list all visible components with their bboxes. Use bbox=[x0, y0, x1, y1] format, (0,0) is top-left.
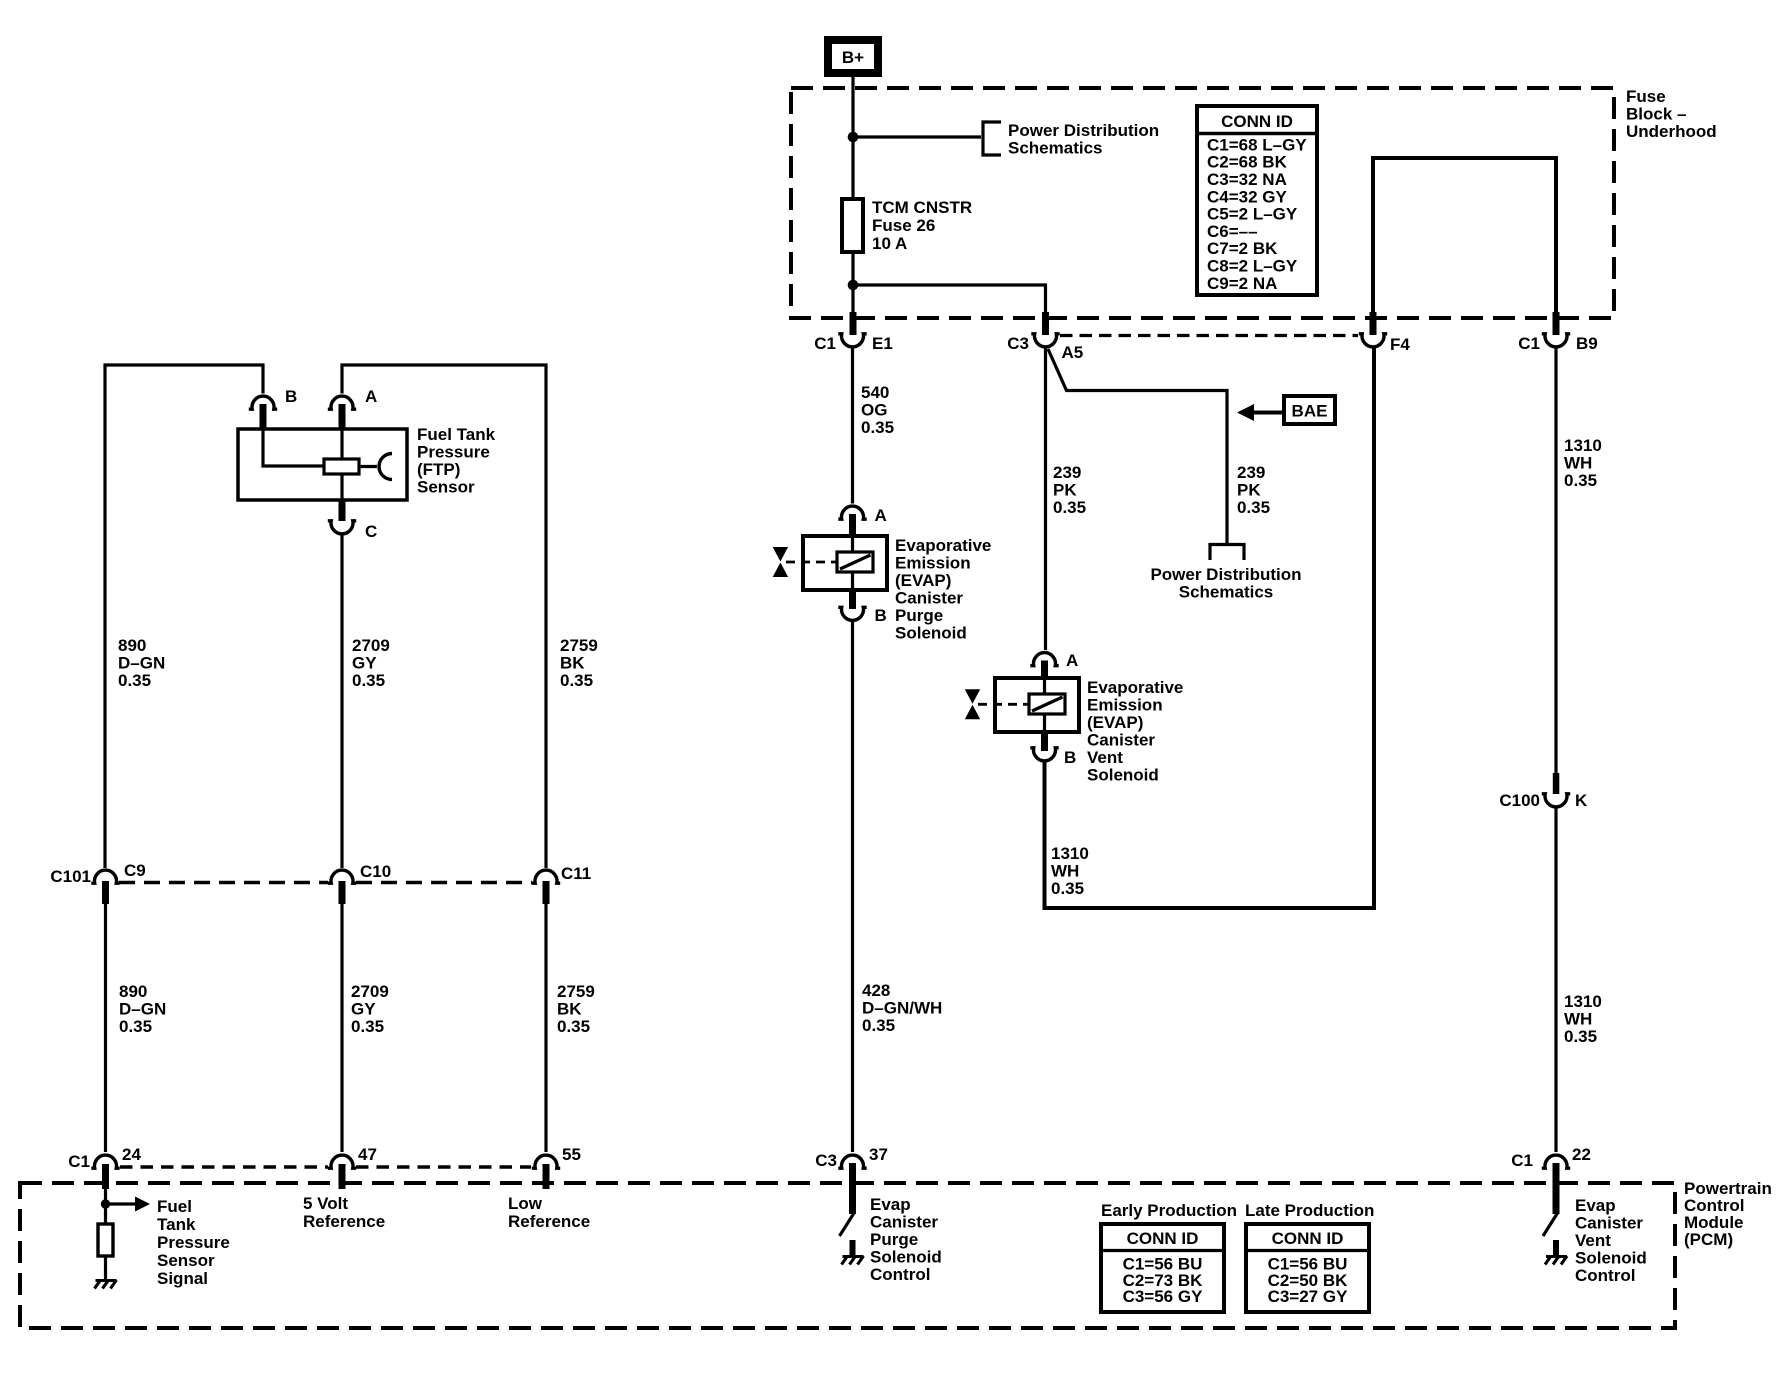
wire 540 OG E1 to purge solenoid A bbox=[851, 348, 854, 504]
svg-text:WH: WH bbox=[1564, 454, 1592, 473]
svg-text:C100: C100 bbox=[1499, 791, 1540, 810]
connector C FTP bbox=[328, 521, 356, 534]
CONN ID table fuse block bbox=[1197, 106, 1317, 295]
wire 239 PK A5 down to vent solenoid A bbox=[1044, 348, 1047, 650]
svg-text:WH: WH bbox=[1564, 1010, 1592, 1029]
svg-text:Pressure: Pressure bbox=[157, 1233, 230, 1252]
wire label 1310 WH 0.35 vent bbox=[1051, 844, 1089, 898]
battery feed B+ box bbox=[828, 40, 878, 73]
PCM dashed box bbox=[20, 1183, 1675, 1328]
svg-text:2709: 2709 bbox=[352, 636, 390, 655]
fuel tank pressure sensor box bbox=[238, 429, 407, 500]
wire resistor to ground bbox=[104, 1256, 107, 1279]
svg-text:Signal: Signal bbox=[157, 1269, 208, 1288]
svg-text:Canister: Canister bbox=[895, 589, 963, 608]
pin stub A vent bbox=[1041, 661, 1048, 679]
wire vent B loop up to F4 bbox=[1045, 348, 1375, 908]
pin 47 stub bbox=[339, 1164, 346, 1189]
off-page bracket lower power distribution bbox=[1210, 545, 1244, 561]
wire branch A5 diagonal to power distribution bbox=[1048, 349, 1227, 544]
wire C100 to PCM pin 22 bbox=[1554, 808, 1557, 1152]
dashed line C101 segment 2 bbox=[356, 881, 532, 884]
dashed pin row segment 1 bbox=[120, 1165, 328, 1168]
svg-text:Early Production: Early Production bbox=[1101, 1201, 1237, 1220]
svg-text:C4=32 GY: C4=32 GY bbox=[1207, 187, 1288, 206]
svg-text:GY: GY bbox=[351, 1000, 376, 1019]
svg-text:BK: BK bbox=[557, 1000, 582, 1019]
svg-text:239: 239 bbox=[1237, 463, 1265, 482]
purge valve bbox=[773, 547, 788, 577]
svg-text:C3=32 NA: C3=32 NA bbox=[1207, 170, 1287, 189]
connector F4 bbox=[1359, 334, 1387, 347]
svg-text:CONN ID: CONN ID bbox=[1127, 1229, 1199, 1248]
wire label 2709 GY 0.35 upper bbox=[352, 636, 390, 690]
BAE box bbox=[1284, 396, 1335, 424]
wire C11 to pin 55 bbox=[544, 903, 547, 1152]
ground purge control bbox=[842, 1256, 864, 1265]
svg-text:Schematics: Schematics bbox=[1179, 583, 1274, 602]
svg-text:2709: 2709 bbox=[351, 982, 389, 1001]
svg-text:C3: C3 bbox=[815, 1151, 837, 1170]
vent coil bbox=[1029, 694, 1065, 714]
wire label 1310 WH 0.35 below B9 bbox=[1564, 436, 1602, 490]
fuse block label bbox=[1626, 87, 1717, 141]
svg-text:10 A: 10 A bbox=[872, 234, 907, 253]
wire label 2759 BK 0.35 lower bbox=[557, 982, 595, 1036]
svg-text:(EVAP): (EVAP) bbox=[895, 571, 951, 590]
connector C3 A5 bbox=[1031, 334, 1059, 347]
wire label 2759 BK 0.35 upper bbox=[560, 636, 598, 690]
svg-text:C1: C1 bbox=[1511, 1151, 1533, 1170]
svg-text:K: K bbox=[1575, 791, 1588, 810]
purge solenoid label bbox=[895, 536, 991, 643]
connector C101 C11 bbox=[532, 870, 560, 883]
svg-text:Evaporative: Evaporative bbox=[895, 536, 991, 555]
FTP signal label bbox=[157, 1197, 230, 1288]
late production CONN ID table bbox=[1246, 1224, 1369, 1312]
svg-text:540: 540 bbox=[861, 383, 889, 402]
wire label 2709 GY 0.35 lower bbox=[351, 982, 389, 1036]
purge solenoid box bbox=[803, 536, 887, 590]
svg-text:Pressure: Pressure bbox=[417, 443, 490, 462]
svg-text:CONN ID: CONN ID bbox=[1221, 112, 1293, 131]
connector pin 47 bbox=[328, 1155, 356, 1168]
driver switch blade pin 22 bbox=[1543, 1213, 1558, 1236]
svg-text:890: 890 bbox=[119, 982, 147, 1001]
svg-text:0.35: 0.35 bbox=[1053, 498, 1086, 517]
FTP signal arrow bbox=[106, 1197, 151, 1212]
svg-text:Tank: Tank bbox=[157, 1215, 196, 1234]
purge control label bbox=[870, 1195, 942, 1284]
svg-text:F4: F4 bbox=[1390, 335, 1410, 354]
svg-text:0.35: 0.35 bbox=[1051, 879, 1084, 898]
connector B vent bbox=[1030, 748, 1058, 761]
svg-text:TCM CNSTR: TCM CNSTR bbox=[872, 198, 972, 217]
FTP sensor label bbox=[417, 425, 496, 497]
connector C101 C10 bbox=[328, 870, 356, 883]
svg-text:Underhood: Underhood bbox=[1626, 122, 1717, 141]
wire label 1310 WH 0.35 lower right bbox=[1564, 992, 1602, 1046]
wire to power distribution tap bbox=[853, 135, 981, 138]
svg-text:C101: C101 bbox=[50, 867, 91, 886]
pin E1 stub bbox=[850, 312, 857, 335]
wire purge B down to PCM pin 37 bbox=[851, 622, 854, 1152]
svg-text:Evaporative: Evaporative bbox=[1087, 678, 1183, 697]
svg-text:A: A bbox=[1066, 651, 1078, 670]
FTP resistor bbox=[324, 459, 359, 474]
svg-text:0.35: 0.35 bbox=[1564, 471, 1597, 490]
FTP internal A lead through resistor bbox=[340, 429, 343, 500]
svg-text:22: 22 bbox=[1572, 1145, 1591, 1164]
connector pin 24 bbox=[91, 1155, 119, 1168]
svg-text:Control: Control bbox=[1575, 1266, 1635, 1285]
svg-text:Block –: Block – bbox=[1626, 105, 1686, 124]
svg-text:GY: GY bbox=[352, 654, 377, 673]
svg-text:C6=––: C6=–– bbox=[1207, 222, 1258, 241]
svg-text:C1: C1 bbox=[68, 1152, 90, 1171]
pin F4 stub bbox=[1370, 312, 1377, 335]
svg-text:(EVAP): (EVAP) bbox=[1087, 713, 1143, 732]
svg-text:B9: B9 bbox=[1576, 334, 1598, 353]
svg-text:55: 55 bbox=[562, 1145, 581, 1164]
PCM internal resistor bbox=[98, 1224, 113, 1256]
svg-text:Reference: Reference bbox=[303, 1212, 385, 1231]
svg-text:0.35: 0.35 bbox=[1564, 1027, 1597, 1046]
BAE arrow bbox=[1237, 404, 1284, 421]
fuse label bbox=[872, 198, 972, 253]
svg-text:A: A bbox=[875, 506, 887, 525]
power distribution schematics label bbox=[1008, 121, 1159, 158]
ground vent control bbox=[1545, 1256, 1567, 1265]
svg-text:0.35: 0.35 bbox=[862, 1016, 895, 1035]
pin A5 stub bbox=[1042, 312, 1049, 335]
vent coil vertical lead bbox=[1043, 678, 1046, 732]
svg-text:C3=56 GY: C3=56 GY bbox=[1123, 1287, 1204, 1306]
svg-text:Solenoid: Solenoid bbox=[870, 1248, 942, 1267]
pin stub B purge bbox=[849, 590, 856, 609]
connector C100 K bbox=[1542, 794, 1570, 807]
svg-text:0.35: 0.35 bbox=[557, 1017, 590, 1036]
svg-text:24: 24 bbox=[122, 1145, 141, 1164]
early production CONN ID table bbox=[1101, 1224, 1224, 1312]
svg-text:C9=2 NA: C9=2 NA bbox=[1207, 274, 1277, 293]
connector A FTP bbox=[328, 396, 356, 409]
driver switch blade pin 37 bbox=[840, 1213, 855, 1236]
svg-text:A5: A5 bbox=[1062, 343, 1084, 362]
svg-text:Power Distribution: Power Distribution bbox=[1008, 121, 1159, 140]
pin 24 stub bbox=[102, 1164, 109, 1189]
pin stub B FTP bbox=[260, 404, 267, 430]
connector pin 55 bbox=[532, 1155, 560, 1168]
svg-text:0.35: 0.35 bbox=[861, 418, 894, 437]
svg-text:(FTP): (FTP) bbox=[417, 460, 460, 479]
wire fuse to E1 bbox=[851, 252, 854, 315]
connector B purge bbox=[838, 607, 866, 620]
low reference label bbox=[508, 1194, 590, 1231]
svg-text:0.35: 0.35 bbox=[352, 671, 385, 690]
pin 55 stub bbox=[543, 1164, 550, 1189]
svg-text:Purge: Purge bbox=[870, 1230, 918, 1249]
svg-text:1310: 1310 bbox=[1564, 436, 1602, 455]
junction at B+ feed bbox=[848, 132, 859, 143]
svg-text:0.35: 0.35 bbox=[1237, 498, 1270, 517]
svg-text:C5=2 L–GY: C5=2 L–GY bbox=[1207, 205, 1298, 224]
wire top right loop FTP A to 2759 bbox=[342, 365, 546, 868]
FTP signal wire inside PCM bbox=[104, 1189, 107, 1224]
wire label 428 D-GN/WH 0.35 bbox=[862, 981, 942, 1035]
svg-text:1310: 1310 bbox=[1564, 992, 1602, 1011]
5 volt reference label bbox=[303, 1194, 385, 1231]
svg-text:C1: C1 bbox=[814, 334, 836, 353]
connector A vent bbox=[1030, 653, 1058, 666]
svg-text:C11: C11 bbox=[561, 864, 591, 883]
svg-text:890: 890 bbox=[118, 636, 146, 655]
vent solenoid label bbox=[1087, 678, 1183, 785]
FTP internal B lead bbox=[263, 429, 324, 466]
svg-text:C7=2 BK: C7=2 BK bbox=[1207, 239, 1278, 258]
svg-text:Fuel: Fuel bbox=[157, 1197, 192, 1216]
connector pin 22 bbox=[1542, 1155, 1570, 1168]
pin B9 stub bbox=[1553, 312, 1560, 335]
svg-text:Reference: Reference bbox=[508, 1212, 590, 1231]
fuse TCM CNSTR Fuse 26 10A bbox=[842, 199, 863, 252]
svg-text:C9: C9 bbox=[124, 861, 146, 880]
svg-text:0.35: 0.35 bbox=[351, 1017, 384, 1036]
svg-text:Fuel Tank: Fuel Tank bbox=[417, 425, 496, 444]
connector C101 C9 bbox=[91, 870, 119, 883]
pin stub C9 bbox=[102, 881, 109, 904]
svg-text:Canister: Canister bbox=[1087, 731, 1155, 750]
svg-text:Solenoid: Solenoid bbox=[1575, 1249, 1647, 1268]
connector B FTP bbox=[249, 396, 277, 409]
svg-text:C8=2 L–GY: C8=2 L–GY bbox=[1207, 257, 1298, 276]
PCM label bbox=[1684, 1179, 1772, 1249]
wire label 239 PK 0.35 left bbox=[1053, 463, 1086, 517]
svg-text:C: C bbox=[365, 522, 377, 541]
svg-text:239: 239 bbox=[1053, 463, 1081, 482]
svg-text:OG: OG bbox=[861, 401, 887, 420]
svg-text:Low: Low bbox=[508, 1194, 543, 1213]
svg-text:Evap: Evap bbox=[1575, 1196, 1616, 1215]
svg-text:Control: Control bbox=[870, 1265, 930, 1284]
vent valve dashed link bbox=[978, 703, 1029, 706]
pin stub B vent bbox=[1041, 732, 1048, 751]
pin 22 stub bbox=[1553, 1163, 1560, 1214]
svg-text:E1: E1 bbox=[872, 334, 893, 353]
purge valve dashed link bbox=[786, 561, 837, 564]
svg-text:C3: C3 bbox=[1007, 334, 1029, 353]
wire label 890 D-GN 0.35 lower bbox=[119, 982, 166, 1036]
pin 37 stub bbox=[849, 1163, 856, 1214]
svg-text:0.35: 0.35 bbox=[118, 671, 151, 690]
vent control label bbox=[1575, 1196, 1647, 1285]
wire C down to C10 bbox=[340, 535, 343, 868]
connector C1 B9 bbox=[1542, 334, 1570, 347]
wire label 890 D-GN 0.35 upper bbox=[118, 636, 165, 690]
vent solenoid box bbox=[995, 678, 1079, 732]
purge coil vertical lead bbox=[851, 536, 854, 590]
svg-text:Fuse 26: Fuse 26 bbox=[872, 216, 935, 235]
junction below fuse bbox=[848, 280, 859, 291]
svg-text:CONN ID: CONN ID bbox=[1272, 1229, 1344, 1248]
svg-text:Canister: Canister bbox=[870, 1213, 938, 1232]
svg-text:B: B bbox=[1064, 748, 1076, 767]
svg-text:D–GN: D–GN bbox=[118, 654, 165, 673]
svg-text:428: 428 bbox=[862, 981, 890, 1000]
svg-text:B+: B+ bbox=[842, 48, 864, 67]
fuse block dashed box bbox=[791, 88, 1614, 318]
wire B+ down into fuse block bbox=[851, 77, 854, 199]
purge coil bbox=[837, 552, 873, 572]
ground stub pin 22 bbox=[1553, 1240, 1559, 1255]
dashed connector group line A5 to F4 bbox=[1060, 334, 1358, 337]
connector pin 37 bbox=[838, 1155, 866, 1168]
svg-text:2759: 2759 bbox=[560, 636, 598, 655]
svg-text:BK: BK bbox=[560, 654, 585, 673]
svg-text:PK: PK bbox=[1053, 481, 1077, 500]
wire top left loop to FTP B bbox=[105, 365, 263, 868]
svg-text:C10: C10 bbox=[360, 862, 391, 881]
svg-text:C1: C1 bbox=[1518, 334, 1540, 353]
svg-text:Late Production: Late Production bbox=[1245, 1201, 1374, 1220]
svg-text:37: 37 bbox=[869, 1145, 888, 1164]
svg-text:Vent: Vent bbox=[1087, 748, 1123, 767]
svg-text:0.35: 0.35 bbox=[560, 671, 593, 690]
svg-text:A: A bbox=[365, 387, 377, 406]
pin stub C FTP bbox=[339, 500, 346, 521]
off-page bracket power distribution bbox=[983, 122, 1001, 155]
svg-text:D–GN: D–GN bbox=[119, 1000, 166, 1019]
svg-text:C3=27 GY: C3=27 GY bbox=[1268, 1287, 1349, 1306]
svg-text:Schematics: Schematics bbox=[1008, 139, 1103, 158]
svg-text:Emission: Emission bbox=[895, 554, 971, 573]
svg-text:Sensor: Sensor bbox=[417, 478, 475, 497]
svg-text:2759: 2759 bbox=[557, 982, 595, 1001]
svg-text:Canister: Canister bbox=[1575, 1214, 1643, 1233]
wire C9 to pin 24 bbox=[104, 903, 107, 1152]
EVAP canister purge solenoid bbox=[773, 506, 887, 625]
svg-text:Purge: Purge bbox=[895, 606, 943, 625]
svg-text:(PCM): (PCM) bbox=[1684, 1230, 1733, 1249]
dashed pin row segment 2 bbox=[356, 1165, 531, 1168]
svg-text:D–GN/WH: D–GN/WH bbox=[862, 999, 942, 1018]
FTP wiper arc bbox=[379, 454, 392, 480]
svg-text:1310: 1310 bbox=[1051, 844, 1089, 863]
svg-text:Solenoid: Solenoid bbox=[1087, 766, 1159, 785]
svg-text:BAE: BAE bbox=[1292, 402, 1328, 421]
ground FTP signal bbox=[95, 1280, 117, 1289]
pin stub C10 bbox=[339, 881, 346, 904]
svg-text:Power Distribution: Power Distribution bbox=[1150, 565, 1301, 584]
svg-text:B: B bbox=[285, 387, 297, 406]
svg-text:47: 47 bbox=[358, 1145, 377, 1164]
internal fuse block loop F4 to B9 bbox=[1373, 158, 1556, 315]
connector A purge bbox=[838, 506, 866, 519]
pin stub C11 bbox=[543, 881, 550, 904]
svg-text:Emission: Emission bbox=[1087, 696, 1163, 715]
dashed line C101 segment 1 bbox=[119, 881, 328, 884]
svg-text:WH: WH bbox=[1051, 862, 1079, 881]
lower power distribution schematics label bbox=[1150, 565, 1301, 602]
connector C1 E1 bbox=[838, 334, 866, 347]
wire B9 down to C100 bbox=[1554, 348, 1557, 774]
svg-text:Fuse: Fuse bbox=[1626, 87, 1666, 106]
EVAP canister vent solenoid bbox=[965, 651, 1079, 767]
vent valve bbox=[965, 689, 980, 719]
svg-text:Sensor: Sensor bbox=[157, 1251, 215, 1270]
wire label 540 OG 0.35 bbox=[861, 383, 894, 437]
pin stub A purge bbox=[849, 514, 856, 536]
svg-text:0.35: 0.35 bbox=[119, 1017, 152, 1036]
svg-text:5 Volt: 5 Volt bbox=[303, 1194, 348, 1213]
wire branch to A5 bbox=[853, 285, 1046, 315]
svg-text:C1=68 L–GY: C1=68 L–GY bbox=[1207, 135, 1307, 154]
svg-text:PK: PK bbox=[1237, 481, 1261, 500]
ground stub pin 37 bbox=[850, 1240, 856, 1255]
wire label 239 PK 0.35 right bbox=[1237, 463, 1270, 517]
FTP wiper lead bbox=[359, 465, 377, 468]
connector C100 pin stub bbox=[1553, 773, 1560, 794]
junction dot FTP signal bbox=[101, 1199, 110, 1208]
pin stub A FTP bbox=[339, 404, 346, 430]
wire C10 to pin 47 bbox=[340, 903, 343, 1152]
svg-text:Evap: Evap bbox=[870, 1195, 911, 1214]
svg-text:C2=68 BK: C2=68 BK bbox=[1207, 153, 1288, 172]
svg-text:Solenoid: Solenoid bbox=[895, 624, 967, 643]
svg-text:B: B bbox=[875, 606, 887, 625]
svg-text:Vent: Vent bbox=[1575, 1231, 1611, 1250]
